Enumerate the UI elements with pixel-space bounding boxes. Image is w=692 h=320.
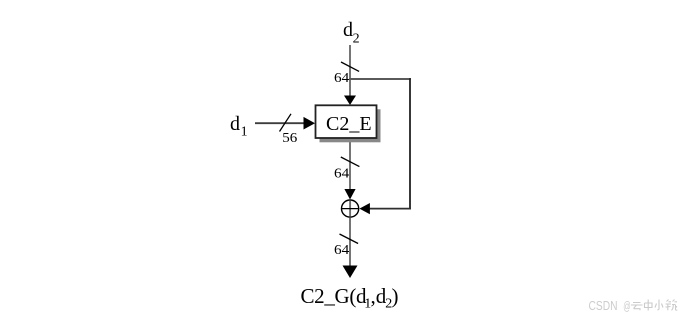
svg-text:@: @ [623,301,631,313]
wire: branch horizontal at y=79 [349,78,411,80]
arrowhead into C2_E (from left) [304,117,316,130]
bus slash 56 [280,114,292,132]
svg-text:CSDN: CSDN [589,299,618,313]
arrowhead into C2_E (from top) [344,96,356,106]
bus slash 64 (middle) [341,157,360,167]
block C2_E [316,105,377,138]
arrowhead into XOR (from top) [344,189,355,200]
svg-text:): ) [392,284,399,308]
arrowhead output (bottom) [343,266,358,279]
wire: d2 vertical into C2_E [349,45,351,96]
svg-text:d: d [343,19,353,41]
node d1 label [230,113,248,139]
svg-text:d: d [230,113,240,135]
筑 [666,300,678,311]
wire: C2_E output vertical [349,138,351,190]
svg-text:64: 64 [334,242,349,257]
wire: right vertical bypass [409,78,411,209]
svg-text:C2_G(d: C2_G(d [301,284,368,308]
svg-text:56: 56 [282,130,297,145]
box shadow [320,109,381,142]
svg-text:C2_E: C2_E [326,113,372,135]
svg-text:64: 64 [334,166,349,181]
bus slash 64 (top) [341,62,359,71]
wire: XOR output vertical [349,217,351,266]
svg-text:64: 64 [334,70,349,85]
云 [631,303,643,311]
svg-text:1: 1 [241,124,248,139]
小 [655,300,663,311]
wire: d1 horizontal [255,122,305,124]
wire: horizontal into XOR from right [369,208,411,210]
node d2 label [343,19,360,47]
中 [645,300,653,311]
bus slash 64 (bottom) [340,234,359,244]
node C2_G(d1,d2) output label [301,284,399,312]
watermark [589,299,678,313]
arrowhead into XOR (from right) [359,203,370,214]
XOR gate [342,200,359,217]
svg-text:2: 2 [353,31,360,46]
